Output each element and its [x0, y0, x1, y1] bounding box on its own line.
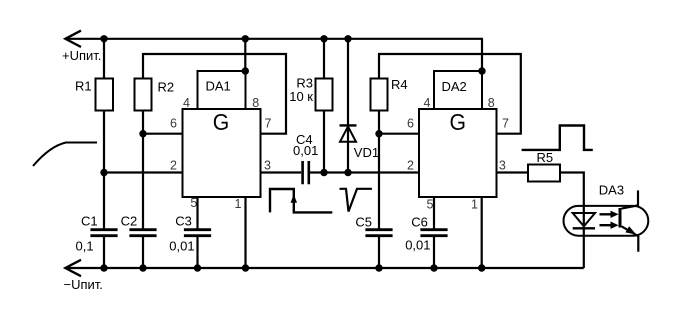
capacitor C2	[129, 230, 156, 268]
svg-text:+Uпит.: +Uпит.	[62, 48, 101, 63]
svg-text:R4: R4	[391, 77, 408, 92]
svg-text:5: 5	[427, 197, 434, 211]
svg-text:C5: C5	[355, 214, 372, 229]
junction dot DA1 supply box corner	[242, 67, 249, 74]
wire pin3 DA1 to C4	[261, 171, 302, 173]
wire DA1 hat from R2 top to pin 7	[143, 54, 286, 134]
junction dot DA2 supply box corner	[478, 67, 485, 74]
junction dot top rail VD1	[344, 35, 351, 42]
junction dot pin6 DA1 on R2 line	[139, 130, 146, 137]
capacitor C4	[303, 161, 309, 184]
wire pin2 DA1	[104, 171, 183, 173]
capacitor C3	[184, 230, 211, 268]
wire DA2 hat from R4 top to pin7	[379, 54, 521, 134]
wire R5 to LED DA3	[560, 173, 584, 269]
svg-text:5: 5	[190, 196, 197, 210]
IC DA1 supply box	[198, 71, 246, 109]
svg-text:7: 7	[502, 117, 509, 131]
waveform pulse at DA1 pin3	[270, 189, 332, 212]
junction dot rail DA1 pin1	[242, 264, 249, 271]
coupling arrows	[600, 211, 619, 229]
capacitor C6	[420, 230, 447, 268]
IC DA2 supply box	[434, 71, 482, 109]
svg-text:10 к: 10 к	[289, 89, 313, 104]
wire pin6 DA2	[379, 133, 419, 135]
svg-text:1: 1	[471, 197, 478, 211]
svg-text:G: G	[213, 109, 230, 135]
junction dot rail C3	[194, 264, 201, 271]
wire C4 to DA2 pin2	[310, 171, 419, 173]
capacitor C1	[90, 230, 117, 268]
svg-text:4: 4	[183, 96, 190, 110]
svg-text:R1: R1	[75, 79, 92, 94]
junction dot rail C5	[375, 264, 382, 271]
capacitor C5	[365, 230, 392, 268]
svg-text:8: 8	[488, 96, 495, 110]
svg-text:0,01: 0,01	[293, 143, 318, 158]
wire pin6 DA1	[143, 133, 183, 135]
resistor R1	[96, 39, 114, 229]
svg-text:DA3: DA3	[599, 182, 624, 197]
svg-text:DA1: DA1	[206, 78, 231, 93]
wire top rail drop to DA1 supply box	[244, 39, 246, 71]
junction dot top rail R3	[320, 35, 327, 42]
IC DA1 body	[183, 109, 261, 197]
svg-text:C6: C6	[411, 214, 428, 229]
LED of DA3	[573, 213, 595, 228]
wire: -Upit bottom rail	[65, 267, 584, 269]
wire: +Upit top rail	[65, 39, 482, 71]
junction dot pin6 DA2 on R4 line	[375, 130, 382, 137]
wire pin1 DA2 to bottom rail	[481, 197, 483, 268]
resistor R5	[528, 165, 560, 182]
svg-text:4: 4	[424, 96, 431, 110]
wire pin1 DA1 to bottom rail	[244, 197, 246, 268]
junction dot top rail DA1 pin8	[242, 35, 249, 42]
svg-text:6: 6	[170, 116, 177, 130]
input signal curve	[33, 143, 97, 167]
resistor R4	[371, 79, 388, 230]
svg-text:R5: R5	[537, 150, 554, 165]
svg-text:3: 3	[499, 158, 506, 172]
wire pin3 DA2 to R5	[497, 171, 529, 173]
waveform arrow up	[291, 194, 297, 202]
svg-text:C3: C3	[175, 213, 192, 228]
svg-text:C1: C1	[81, 213, 98, 228]
wire pin5 DA1 to C3	[196, 197, 198, 229]
resistor R2	[135, 79, 152, 230]
svg-text:G: G	[450, 109, 467, 135]
svg-text:0,01: 0,01	[169, 239, 194, 254]
junction dot rail C6	[430, 264, 437, 271]
svg-text:C2: C2	[121, 213, 138, 228]
IC DA2 body	[419, 109, 497, 197]
svg-text:−Uпит.: −Uпит.	[64, 277, 103, 292]
svg-text:8: 8	[252, 96, 259, 110]
svg-text:DA2: DA2	[442, 79, 467, 94]
junction dot rail DA2 pin1	[478, 264, 485, 271]
svg-text:6: 6	[407, 116, 414, 130]
diode VD1	[340, 39, 357, 173]
waveform pulse at DA2 output	[522, 126, 593, 150]
junction dot rail C2	[139, 264, 146, 271]
waveform sawtooth at C5	[340, 189, 372, 212]
svg-text:0,1: 0,1	[76, 239, 94, 254]
optocoupler DA3 outline	[564, 206, 649, 236]
svg-text:R2: R2	[158, 80, 175, 95]
svg-text:2: 2	[407, 158, 414, 172]
wire pin5 DA2 to C6	[433, 197, 435, 229]
svg-text:VD1: VD1	[354, 145, 379, 160]
junction dot top rail R1	[100, 35, 107, 42]
phototransistor of DA3	[620, 190, 638, 251]
svg-text:2: 2	[170, 158, 177, 172]
junction dot VD1 bottom	[344, 169, 351, 176]
power arrow -Upit	[65, 260, 81, 276]
svg-text:1: 1	[235, 197, 242, 211]
resistor R3	[316, 39, 333, 173]
svg-text:3: 3	[264, 158, 271, 172]
svg-text:0,01: 0,01	[405, 237, 430, 252]
junction dot R3 bottom	[320, 169, 327, 176]
junction dot rail C1	[100, 264, 107, 271]
svg-text:7: 7	[265, 116, 272, 130]
power arrow +Upit	[65, 31, 81, 47]
junction dot pin2 DA1 on R1 line	[100, 169, 107, 176]
